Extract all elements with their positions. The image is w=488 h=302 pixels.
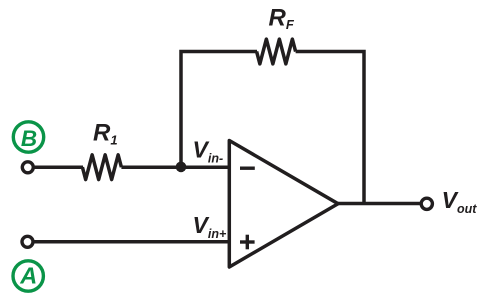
svg-text:A: A [19,263,37,289]
terminal badge A [13,261,43,291]
wire: R1 to inverting input [121,165,229,169]
wire: feedback up and over to RF [181,52,257,168]
svg-text:B: B [21,126,37,151]
op-amp U1 [229,141,338,268]
resistor R1 [82,155,121,180]
svg-text:Vin-: Vin- [193,137,224,166]
terminal B (open circle) [22,162,33,173]
wire: terminal A to non-inverting input [33,240,229,244]
svg-text:RF: RF [269,4,295,32]
resistor RF [257,39,296,64]
terminal Vout (open circle) [421,198,432,209]
svg-text:R1: R1 [93,119,118,147]
junction node (inverting input) [176,162,187,173]
svg-text:Vout: Vout [442,187,478,216]
wire: terminal B to R1 [33,165,83,169]
terminal badge B [13,122,43,152]
terminal A (open circle) [22,236,33,247]
svg-text:Vin+: Vin+ [193,212,227,241]
wire: op-amp output [338,202,421,206]
wire: RF down to output [296,52,364,204]
